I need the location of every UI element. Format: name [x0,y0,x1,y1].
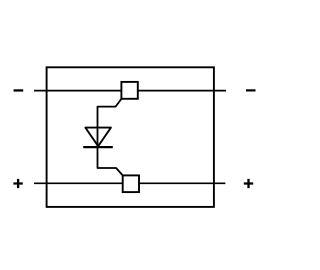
module outline (terminal block body) [47,67,214,207]
wire: positive rail (bottom) [34,182,225,184]
diode D1 triangle (anode) [85,128,111,147]
label − (left) [14,89,24,91]
clamp terminal 1 (top square on negative rail) [121,82,137,99]
clamp terminal 2 (bottom square on positive rail) [123,175,139,192]
label − (right) [246,89,256,91]
label + (right) [244,179,253,188]
wire: diode cathode to clamp 2 (down, jog right) [98,147,123,175]
diode D1 cathode bar [83,146,113,148]
wire: negative rail (top) [34,90,226,92]
wire: clamp 1 to diode anode (jog left, down) [98,99,122,147]
label + (left) [13,179,22,188]
